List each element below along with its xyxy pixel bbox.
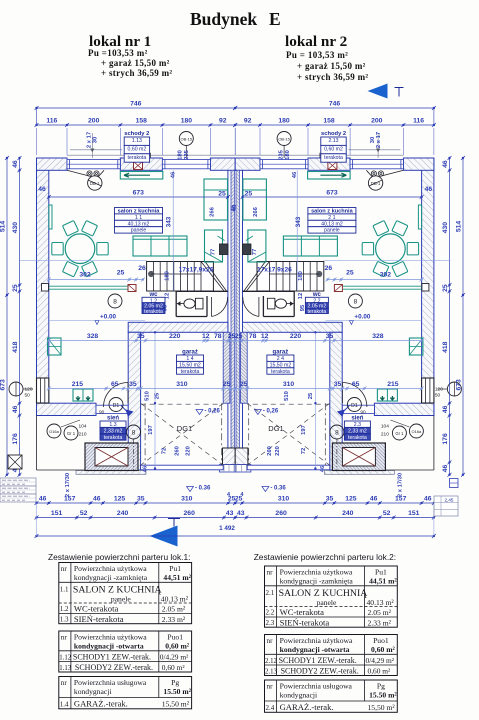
svg-text:260: 260 bbox=[267, 446, 273, 456]
svg-text:Pu1: Pu1 bbox=[375, 568, 387, 577]
svg-text:panele: panele bbox=[317, 598, 337, 607]
svg-text:Pg: Pg bbox=[171, 678, 179, 687]
svg-text:215: 215 bbox=[387, 381, 399, 388]
svg-text:43: 43 bbox=[226, 510, 234, 517]
svg-text:266: 266 bbox=[253, 206, 259, 216]
svg-text:2.13: 2.13 bbox=[265, 669, 277, 676]
svg-text:25: 25 bbox=[155, 392, 161, 399]
svg-text:DG1: DG1 bbox=[177, 424, 192, 433]
svg-text:46: 46 bbox=[143, 465, 149, 472]
svg-text:46: 46 bbox=[292, 171, 298, 178]
svg-text:0,60 m2: 0,60 m2 bbox=[324, 146, 343, 152]
svg-text:- 0.36: - 0.36 bbox=[195, 486, 211, 492]
svg-text:30: 30 bbox=[93, 137, 99, 143]
svg-text:25: 25 bbox=[235, 333, 243, 340]
svg-text:terakota: terakota bbox=[324, 155, 343, 161]
svg-text:nr: nr bbox=[61, 565, 68, 573]
svg-text:25: 25 bbox=[218, 191, 226, 198]
svg-text:46: 46 bbox=[320, 465, 326, 472]
svg-text:Puo1: Puo1 bbox=[373, 636, 389, 645]
svg-text:104: 104 bbox=[381, 424, 389, 430]
svg-text:8: 8 bbox=[335, 429, 339, 436]
svg-text:8: 8 bbox=[113, 298, 117, 305]
svg-text:46: 46 bbox=[93, 496, 101, 503]
svg-text:E: E bbox=[269, 9, 281, 29]
svg-text:510: 510 bbox=[145, 391, 151, 401]
svg-text:673: 673 bbox=[133, 190, 145, 197]
svg-text:310: 310 bbox=[181, 496, 193, 503]
svg-text:260: 260 bbox=[184, 510, 196, 517]
svg-text:104: 104 bbox=[79, 424, 87, 430]
svg-text:310: 310 bbox=[176, 381, 188, 388]
svg-text:2.2: 2.2 bbox=[266, 609, 275, 617]
svg-text:302: 302 bbox=[380, 272, 392, 279]
svg-text:1.3: 1.3 bbox=[60, 616, 69, 624]
svg-text:2.12: 2.12 bbox=[265, 658, 277, 665]
svg-text:nr: nr bbox=[267, 683, 274, 691]
svg-text:46: 46 bbox=[424, 496, 432, 503]
svg-text:120: 120 bbox=[25, 387, 33, 393]
svg-text:343: 343 bbox=[295, 216, 302, 227]
svg-text:180: 180 bbox=[278, 118, 290, 125]
svg-text:GARAŻ.-terak.: GARAŻ.-terak. bbox=[280, 702, 334, 712]
svg-text:terakota: terakota bbox=[104, 435, 123, 441]
svg-text:Powierzchnia użytkowa: Powierzchnia użytkowa bbox=[74, 633, 147, 642]
svg-text:215: 215 bbox=[72, 381, 84, 388]
svg-text:kondygnacji -otwarta: kondygnacji -otwarta bbox=[74, 642, 144, 651]
svg-text:WC-terakota: WC-terakota bbox=[280, 607, 325, 617]
svg-text:673: 673 bbox=[456, 379, 463, 391]
svg-text:17x17,9x26: 17x17,9x26 bbox=[179, 267, 214, 274]
svg-text:52: 52 bbox=[80, 510, 88, 517]
svg-text:46: 46 bbox=[442, 160, 449, 168]
svg-text:673: 673 bbox=[326, 190, 338, 197]
svg-text:151: 151 bbox=[408, 510, 420, 517]
svg-text:35: 35 bbox=[326, 333, 334, 340]
svg-text:418: 418 bbox=[12, 341, 19, 353]
svg-text:52: 52 bbox=[383, 510, 391, 517]
svg-text:197: 197 bbox=[301, 425, 307, 435]
svg-text:158: 158 bbox=[323, 118, 335, 125]
svg-text:328: 328 bbox=[87, 333, 99, 340]
svg-text:43: 43 bbox=[237, 510, 245, 517]
svg-text:nr: nr bbox=[267, 569, 274, 577]
svg-text:2.05 m²: 2.05 m² bbox=[162, 605, 186, 614]
svg-text:78: 78 bbox=[214, 333, 222, 340]
svg-text:nr: nr bbox=[61, 679, 68, 687]
svg-text:terakota: terakota bbox=[128, 155, 147, 161]
svg-text:116: 116 bbox=[46, 118, 57, 125]
svg-text:25: 25 bbox=[240, 381, 248, 388]
svg-text:35: 35 bbox=[326, 496, 334, 503]
svg-text:15,50 m²: 15,50 m² bbox=[162, 700, 190, 709]
svg-text:302: 302 bbox=[79, 272, 91, 279]
svg-text:430: 430 bbox=[12, 222, 19, 234]
svg-text:Powierzchnia usługowa: Powierzchnia usługowa bbox=[74, 678, 147, 687]
svg-text:180: 180 bbox=[178, 150, 184, 160]
svg-text:+ garaż 15,50 m²: + garaż 15,50 m² bbox=[297, 61, 366, 71]
svg-text:328: 328 bbox=[372, 333, 384, 340]
svg-text:- 0.36: - 0.36 bbox=[270, 486, 286, 492]
svg-text:220: 220 bbox=[169, 333, 181, 340]
svg-text:180: 180 bbox=[181, 118, 193, 125]
svg-text:2.13: 2.13 bbox=[328, 138, 338, 144]
svg-text:SCHODY1 ZEW.-terak.: SCHODY1 ZEW.-terak. bbox=[73, 653, 151, 662]
svg-text:46: 46 bbox=[370, 496, 378, 503]
svg-text:2 x 17/30: 2 x 17/30 bbox=[397, 473, 403, 497]
svg-text:514: 514 bbox=[0, 221, 7, 233]
svg-text:12: 12 bbox=[202, 333, 210, 340]
svg-text:1 492: 1 492 bbox=[219, 525, 235, 532]
svg-text:72: 72 bbox=[301, 448, 307, 454]
svg-text:- 0,26: - 0,26 bbox=[263, 409, 279, 415]
svg-text:46: 46 bbox=[12, 160, 19, 168]
svg-text:+ garaż 15,50 m²: + garaż 15,50 m² bbox=[101, 58, 170, 68]
svg-text:158: 158 bbox=[136, 118, 148, 125]
svg-text:220: 220 bbox=[186, 446, 192, 456]
svg-text:46: 46 bbox=[38, 186, 46, 193]
svg-text:DG1: DG1 bbox=[268, 424, 283, 433]
svg-text:746: 746 bbox=[130, 101, 142, 108]
svg-text:90: 90 bbox=[99, 410, 105, 416]
svg-text:30: 30 bbox=[370, 137, 376, 143]
svg-text:SIEŃ-terakota: SIEŃ-terakota bbox=[74, 614, 124, 624]
svg-text:0,60 m²: 0,60 m² bbox=[371, 645, 396, 654]
svg-text:176: 176 bbox=[12, 433, 19, 445]
svg-text:514: 514 bbox=[456, 221, 463, 233]
svg-text:92: 92 bbox=[219, 118, 227, 125]
svg-text:220: 220 bbox=[275, 446, 281, 456]
svg-text:65: 65 bbox=[111, 381, 119, 388]
svg-text:+0.00: +0.00 bbox=[354, 314, 370, 321]
svg-text:0,60 m2: 0,60 m2 bbox=[128, 146, 147, 152]
svg-text:15.50 m²: 15.50 m² bbox=[369, 691, 397, 700]
svg-text:26: 26 bbox=[325, 265, 333, 272]
svg-text:78: 78 bbox=[249, 333, 257, 340]
svg-text:1.13: 1.13 bbox=[59, 665, 71, 672]
svg-text:kondygnacji -zamknięta: kondygnacji -zamknięta bbox=[280, 577, 354, 586]
svg-text:510: 510 bbox=[284, 391, 290, 401]
svg-text:D1: D1 bbox=[351, 403, 358, 409]
svg-text:46: 46 bbox=[171, 171, 177, 178]
svg-text:Pu = 103,53 m²: Pu = 103,53 m² bbox=[286, 50, 348, 60]
svg-text:SCHODY2 ZEW.-terak.: SCHODY2 ZEW.-terak. bbox=[75, 663, 153, 672]
svg-text:2 x 17: 2 x 17 bbox=[376, 132, 382, 148]
svg-text:terakota: terakota bbox=[348, 435, 367, 441]
svg-text:25: 25 bbox=[308, 392, 314, 399]
svg-text:panele: panele bbox=[324, 228, 340, 234]
svg-text:197: 197 bbox=[148, 425, 154, 435]
svg-text:220: 220 bbox=[290, 333, 302, 340]
svg-text:0/4,29 m²: 0/4,29 m² bbox=[366, 656, 395, 665]
svg-text:46: 46 bbox=[39, 496, 47, 503]
svg-text:260: 260 bbox=[275, 510, 287, 517]
svg-text:schody 2: schody 2 bbox=[321, 131, 346, 137]
svg-text:260: 260 bbox=[175, 446, 181, 456]
svg-text:46: 46 bbox=[442, 465, 449, 473]
svg-text:200: 200 bbox=[371, 118, 383, 125]
svg-text:0,60 m²: 0,60 m² bbox=[165, 642, 190, 651]
svg-text:8: 8 bbox=[132, 429, 136, 436]
svg-text:50: 50 bbox=[435, 393, 441, 399]
svg-text:25: 25 bbox=[223, 381, 231, 388]
svg-text:terakota: terakota bbox=[308, 309, 327, 315]
svg-text:DB-1: DB-1 bbox=[371, 181, 381, 186]
svg-text:Zestawienie powierzchni parter: Zestawienie powierzchni parteru lok.2: bbox=[254, 552, 396, 562]
svg-text:77: 77 bbox=[211, 249, 217, 255]
svg-text:240: 240 bbox=[342, 510, 354, 517]
svg-text:Gr 1: Gr 1 bbox=[67, 431, 76, 436]
svg-text:Pu1: Pu1 bbox=[169, 564, 181, 573]
svg-text:2.33 m²: 2.33 m² bbox=[368, 619, 392, 628]
svg-text:46: 46 bbox=[442, 405, 449, 413]
svg-text:OB-15: OB-15 bbox=[181, 137, 193, 142]
svg-text:25: 25 bbox=[117, 270, 125, 277]
svg-text:26: 26 bbox=[138, 265, 146, 272]
svg-text:kondygnacji: kondygnacji bbox=[280, 691, 318, 700]
svg-text:0,60 m²: 0,60 m² bbox=[162, 663, 186, 672]
svg-text:4: 4 bbox=[240, 492, 244, 498]
svg-text:8: 8 bbox=[354, 298, 358, 305]
svg-text:151: 151 bbox=[51, 510, 63, 517]
svg-text:GARAŻ.-terak.: GARAŻ.-terak. bbox=[74, 699, 128, 709]
svg-text:125: 125 bbox=[345, 496, 357, 503]
svg-text:180: 180 bbox=[298, 271, 304, 281]
svg-text:180: 180 bbox=[165, 271, 171, 281]
svg-text:430: 430 bbox=[442, 222, 449, 234]
svg-text:+ strych 36,59 m²: + strych 36,59 m² bbox=[297, 72, 368, 82]
svg-text:Pu =103,53 m²: Pu =103,53 m² bbox=[88, 48, 148, 58]
svg-text:terakota: terakota bbox=[181, 369, 200, 375]
svg-text:2.1: 2.1 bbox=[266, 589, 275, 597]
svg-text:Powierzchnia użytkowa: Powierzchnia użytkowa bbox=[74, 564, 147, 573]
svg-text:44,51 m²: 44,51 m² bbox=[369, 577, 397, 586]
svg-text:25: 25 bbox=[245, 191, 253, 198]
svg-text:116: 116 bbox=[413, 118, 424, 125]
svg-text:35: 35 bbox=[137, 333, 145, 340]
svg-text:kondygnacji -zamknięta: kondygnacji -zamknięta bbox=[74, 573, 148, 582]
svg-text:35: 35 bbox=[129, 381, 137, 388]
svg-text:72: 72 bbox=[162, 448, 168, 454]
svg-text:Gr 1: Gr 1 bbox=[395, 431, 404, 436]
svg-text:15.50 m²: 15.50 m² bbox=[163, 687, 191, 696]
svg-text:50: 50 bbox=[25, 393, 31, 399]
svg-text:lokal nr 2: lokal nr 2 bbox=[285, 33, 347, 50]
svg-text:2,45: 2,45 bbox=[445, 498, 454, 503]
svg-text:OB-15: OB-15 bbox=[278, 137, 290, 142]
svg-text:77: 77 bbox=[252, 249, 258, 255]
svg-text:12: 12 bbox=[298, 293, 304, 299]
svg-text:176: 176 bbox=[442, 433, 449, 445]
svg-text:200: 200 bbox=[88, 118, 100, 125]
svg-text:46: 46 bbox=[425, 186, 433, 193]
svg-text:0/4,29 m²: 0/4,29 m² bbox=[160, 653, 189, 662]
svg-text:35: 35 bbox=[137, 496, 145, 503]
svg-text:12: 12 bbox=[261, 333, 269, 340]
svg-text:210: 210 bbox=[381, 432, 389, 438]
svg-text:180: 180 bbox=[285, 150, 291, 160]
svg-text:schody 2: schody 2 bbox=[124, 131, 149, 137]
svg-text:673: 673 bbox=[0, 379, 7, 391]
svg-text:235: 235 bbox=[184, 149, 190, 159]
svg-text:WC-terakota: WC-terakota bbox=[74, 604, 119, 614]
svg-text:+ strych 36,59 m²: + strych 36,59 m² bbox=[101, 68, 172, 78]
svg-text:- 0,26: - 0,26 bbox=[205, 409, 221, 415]
svg-text:2.4: 2.4 bbox=[266, 704, 275, 712]
svg-text:SCHODY2 ZEW.-terak.: SCHODY2 ZEW.-terak. bbox=[281, 667, 359, 676]
svg-text:kondygnacji: kondygnacji bbox=[74, 687, 112, 696]
svg-text:240: 240 bbox=[117, 510, 129, 517]
svg-text:343: 343 bbox=[166, 216, 173, 227]
svg-text:Budynek: Budynek bbox=[190, 9, 257, 29]
svg-text:1.4: 1.4 bbox=[60, 701, 69, 709]
svg-text:310: 310 bbox=[278, 496, 290, 503]
svg-text:SCHODY1 ZEW.-terak.: SCHODY1 ZEW.-terak. bbox=[279, 656, 357, 665]
svg-text:2 x 17/30: 2 x 17/30 bbox=[65, 473, 71, 497]
svg-text:D1: D1 bbox=[113, 403, 120, 409]
svg-text:125: 125 bbox=[114, 496, 126, 503]
svg-text:40.13 m²: 40.13 m² bbox=[161, 595, 189, 604]
svg-text:nr: nr bbox=[267, 637, 274, 645]
svg-text:DB-1: DB-1 bbox=[90, 181, 100, 186]
svg-text:1.12: 1.12 bbox=[59, 655, 71, 662]
svg-text:Powierzchnia użytkowa: Powierzchnia użytkowa bbox=[280, 568, 353, 577]
svg-text:40.13 m²: 40.13 m² bbox=[367, 598, 395, 607]
svg-text:terakota: terakota bbox=[144, 309, 163, 315]
svg-text:Puo1: Puo1 bbox=[167, 633, 183, 642]
svg-text:746: 746 bbox=[329, 101, 341, 108]
svg-text:266: 266 bbox=[210, 206, 216, 216]
svg-text:310: 310 bbox=[283, 381, 295, 388]
svg-text:panele: panele bbox=[111, 595, 131, 604]
svg-text:+0.00: +0.00 bbox=[100, 314, 116, 321]
svg-text:35: 35 bbox=[334, 381, 342, 388]
svg-text:panele: panele bbox=[131, 228, 147, 234]
svg-text:1.13: 1.13 bbox=[132, 138, 142, 144]
svg-text:120: 120 bbox=[435, 387, 443, 393]
svg-text:92: 92 bbox=[244, 118, 252, 125]
svg-text:2.3: 2.3 bbox=[266, 619, 275, 627]
svg-text:17x17,9x26: 17x17,9x26 bbox=[257, 267, 292, 274]
svg-text:Powierzchnia użytkowa: Powierzchnia użytkowa bbox=[280, 636, 353, 645]
svg-text:2.05 m²: 2.05 m² bbox=[368, 608, 392, 617]
svg-text:0,60 m²: 0,60 m² bbox=[368, 667, 392, 676]
svg-text:SIEŃ-terakota: SIEŃ-terakota bbox=[280, 618, 330, 628]
svg-text:46: 46 bbox=[232, 204, 238, 211]
svg-text:O16a: O16a bbox=[412, 429, 423, 434]
svg-text:2.33 m²: 2.33 m² bbox=[162, 615, 186, 624]
svg-text:Pg: Pg bbox=[377, 682, 385, 691]
svg-text:1.2: 1.2 bbox=[60, 605, 69, 613]
svg-text:O16a: O16a bbox=[49, 429, 60, 434]
svg-text:46: 46 bbox=[12, 405, 19, 413]
svg-text:kondygnacji -otwarta: kondygnacji -otwarta bbox=[280, 645, 350, 654]
svg-text:65: 65 bbox=[352, 381, 360, 388]
svg-text:44,51 m²: 44,51 m² bbox=[163, 573, 191, 582]
svg-text:15,50 m²: 15,50 m² bbox=[368, 703, 396, 712]
svg-text:418: 418 bbox=[442, 341, 449, 353]
svg-text:25: 25 bbox=[442, 284, 449, 292]
svg-text:terakota: terakota bbox=[271, 369, 290, 375]
svg-text:Zestawienie powierzchni parter: Zestawienie powierzchni parteru lok.1: bbox=[48, 552, 190, 562]
svg-text:1.1: 1.1 bbox=[60, 586, 69, 594]
svg-text:210: 210 bbox=[79, 432, 87, 438]
svg-text:Powierzchnia usługowa: Powierzchnia usługowa bbox=[280, 682, 353, 691]
svg-text:235: 235 bbox=[278, 149, 284, 159]
svg-text:25: 25 bbox=[346, 270, 354, 277]
svg-text:25: 25 bbox=[12, 284, 19, 292]
svg-text:nr: nr bbox=[61, 634, 68, 642]
